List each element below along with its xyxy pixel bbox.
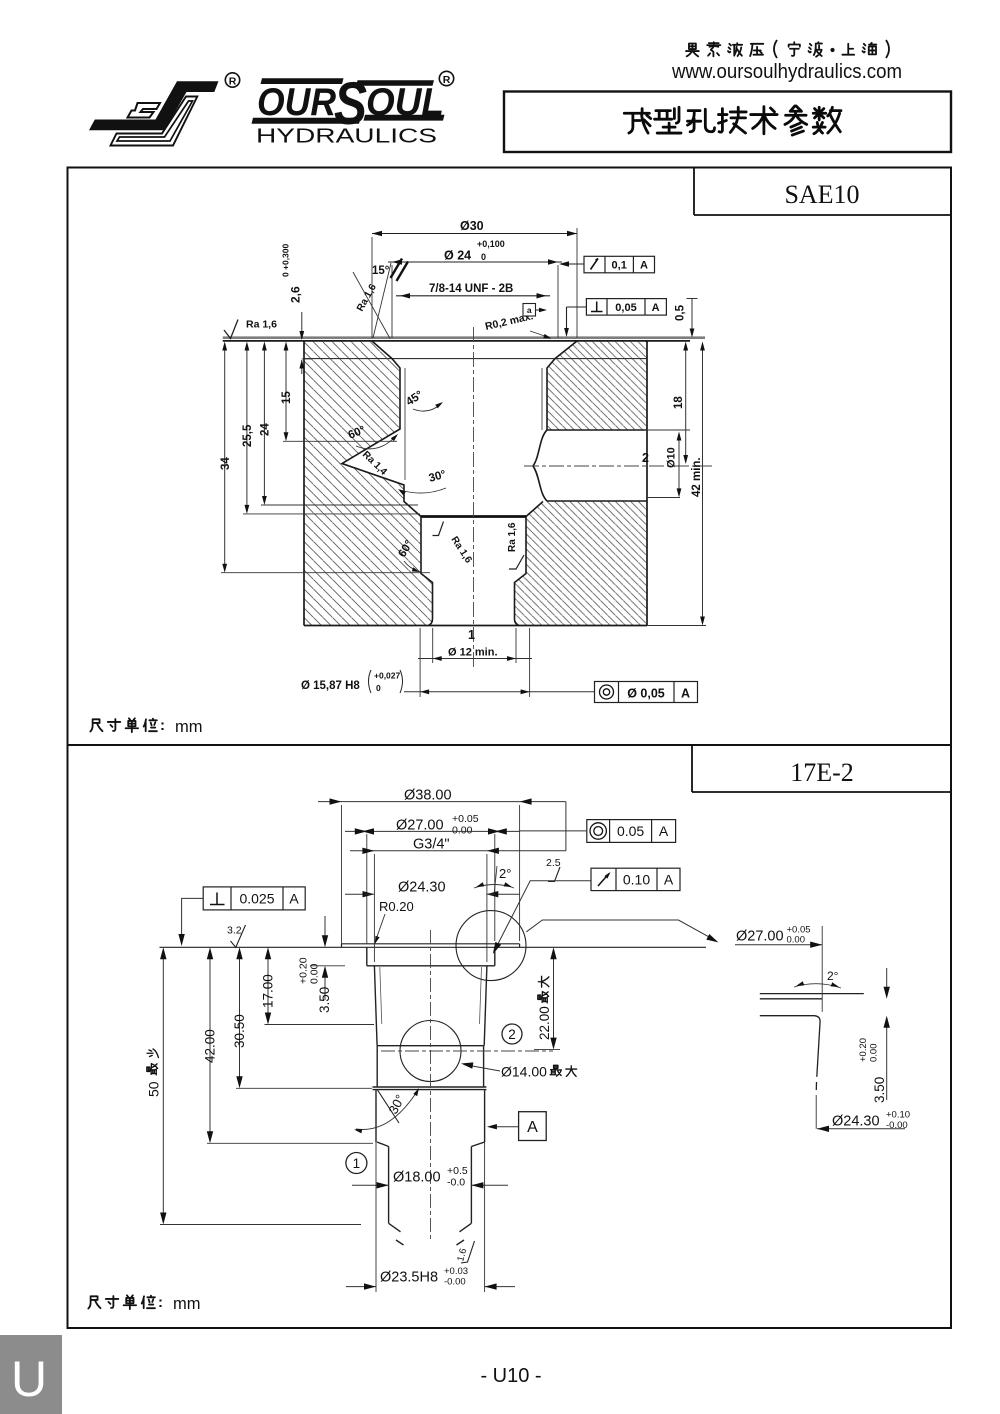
svg-text:+0.03: +0.03 (444, 1266, 468, 1277)
logo: OURSOUL S mark (89, 81, 219, 145)
left Ra 1,6 with check (224, 320, 238, 339)
svg-text:0.00: 0.00 (309, 963, 321, 984)
svg-text:R: R (443, 74, 451, 86)
perpendicularity frame 0,05 A (586, 299, 666, 316)
svg-text:15: 15 (281, 391, 293, 404)
svg-text:+0,100: +0,100 (477, 239, 505, 249)
svg-text:0: 0 (481, 252, 486, 262)
dim 0,5 right (691, 299, 693, 335)
angularity frame 0.10 A (591, 868, 680, 890)
cavity bore outline (342, 341, 577, 626)
seal bore walls (376, 1090, 485, 1142)
centerline vertical (430, 930, 432, 1242)
svg-text:SAE10: SAE10 (784, 180, 859, 209)
svg-text:Ø30: Ø30 (460, 219, 484, 233)
OURSOUL wordmark (252, 70, 445, 137)
svg-text:15°: 15° (372, 265, 390, 277)
dim Ø24 +0,100/0 (388, 261, 562, 263)
flatness feature frame 0,1 A (584, 256, 655, 273)
svg-text:0,5: 0,5 (675, 304, 687, 321)
svg-text:- U10 -: - U10 - (480, 1365, 541, 1387)
circled 2 (502, 1024, 522, 1044)
svg-text:U: U (11, 1351, 47, 1407)
svg-text:Ø23.5H8: Ø23.5H8 (380, 1270, 438, 1286)
svg-text:Ø 12 min.: Ø 12 min. (448, 647, 498, 659)
centerline vertical (473, 327, 475, 668)
svg-text:HYDRAULICS: HYDRAULICS (256, 125, 437, 148)
dim 25,5 (246, 344, 248, 511)
svg-text:34: 34 (220, 457, 232, 470)
unit note panel1 尺寸单位: mm (90, 718, 157, 732)
svg-text:+0.5: +0.5 (447, 1165, 468, 1177)
svg-text:42 min.: 42 min. (691, 457, 703, 497)
hatched block left section (304, 342, 433, 626)
svg-text:2°: 2° (499, 866, 511, 881)
ball max circle (400, 1021, 461, 1082)
svg-text:0,05: 0,05 (615, 302, 636, 314)
unit note panel2 尺寸单位: mm (88, 1295, 155, 1309)
svg-text:3.50: 3.50 (317, 987, 332, 1013)
dim 50 min (zui shao) (162, 950, 164, 1222)
svg-text:R0.20: R0.20 (379, 899, 414, 914)
svg-text:2: 2 (508, 1027, 516, 1042)
title box 成型孔技术参数 (504, 92, 951, 153)
leader from angularity frame to seat corner (494, 881, 591, 952)
dim 18 (685, 344, 687, 461)
svg-text:Ra 1,6: Ra 1,6 (507, 522, 518, 552)
dim 22.00 max vertical (553, 950, 555, 1047)
svg-text:Ø 0,05: Ø 0,05 (627, 687, 665, 701)
outer drawing frame (68, 168, 952, 1329)
svg-text:0.025: 0.025 (239, 891, 274, 907)
svg-text:Ø27.00: Ø27.00 (736, 929, 784, 945)
svg-text:Ø24.30: Ø24.30 (398, 880, 446, 896)
svg-text:1: 1 (468, 628, 475, 642)
svg-text:42.00: 42.00 (203, 1029, 218, 1063)
datum target box a (523, 304, 536, 317)
SAE10 label box (693, 168, 695, 216)
dim 3.50 +0.20/0.00 (324, 916, 326, 945)
svg-text:OUR: OUR (257, 81, 336, 124)
detail dim 3.50 +0.20/0.00 (886, 968, 888, 996)
leader from detail balloon to detail view (526, 920, 716, 941)
svg-text:0.00: 0.00 (787, 935, 806, 946)
svg-text:OUL: OUL (366, 81, 444, 124)
svg-text:1: 1 (353, 1156, 361, 1171)
detail corner profile (760, 1016, 820, 1077)
extension of seal bore walls (375, 1142, 377, 1292)
dim 42 min. (702, 344, 704, 623)
svg-text:0.05: 0.05 (617, 823, 644, 839)
registered mark right (439, 71, 453, 86)
svg-text:3.50: 3.50 (872, 1077, 887, 1103)
dim Ø30 (372, 233, 577, 235)
svg-text:0.00: 0.00 (452, 825, 473, 837)
17E-2 label box (691, 745, 693, 792)
dim 17.00 (267, 950, 269, 1022)
svg-text:2°: 2° (827, 969, 839, 983)
thread crest dashed lines (380, 967, 382, 1024)
detail balloon circle (456, 911, 526, 981)
centerline horizontal of side port (524, 465, 712, 467)
svg-text:2: 2 (642, 451, 649, 465)
registered mark left (225, 73, 239, 88)
svg-text:Ø 24: Ø 24 (444, 249, 471, 263)
svg-text:A: A (527, 1119, 538, 1136)
svg-text:Ø14.00: Ø14.00 (501, 1064, 547, 1080)
concentricity frame 0.05 A (panel2) (587, 820, 676, 843)
svg-text:+0.20: +0.20 (858, 1038, 869, 1062)
Ra 1,6 mid with check (433, 522, 444, 536)
cavity outline upper (367, 947, 495, 1245)
bore walls below seat (421, 517, 433, 626)
dim 15 (285, 344, 287, 439)
svg-text:A: A (289, 891, 299, 907)
thread minor diameter lines (404, 368, 406, 480)
concentricity frame Ø 0,05 A (595, 682, 698, 703)
svg-text:17.00: 17.00 (261, 974, 276, 1008)
hatched block right lower section (515, 501, 648, 626)
manifold surface line (160, 946, 707, 948)
svg-text:Ra 1,6: Ra 1,6 (246, 319, 277, 331)
svg-text:+0,300: +0,300 (281, 243, 291, 270)
svg-text:24: 24 (260, 423, 272, 436)
svg-text:-0.00: -0.00 (444, 1277, 466, 1288)
svg-text:3.2: 3.2 (227, 925, 242, 937)
svg-text:30.50: 30.50 (232, 1014, 247, 1048)
Ra 1,6 on 15 deg chamfer (353, 272, 390, 339)
detail surface lines (760, 993, 864, 995)
svg-text:0.10: 0.10 (623, 872, 650, 888)
svg-text:+0.10: +0.10 (886, 1110, 910, 1121)
svg-text:0,1: 0,1 (612, 260, 627, 272)
svg-text:Ø10: Ø10 (666, 447, 678, 468)
svg-text:mm: mm (175, 718, 203, 736)
pilot bore walls (389, 1147, 472, 1224)
svg-text:Ø 15,87 H8: Ø 15,87 H8 (301, 680, 360, 692)
wavy break at side port mouth (533, 430, 547, 501)
svg-text:R: R (229, 75, 237, 87)
30 deg lead-in line and arc (378, 1090, 400, 1123)
svg-text:0: 0 (281, 272, 291, 277)
hook to concentricity frame (565, 802, 567, 851)
svg-text::: : (158, 1294, 163, 1311)
svg-text:A: A (681, 687, 690, 701)
svg-text:-0.0: -0.0 (447, 1177, 465, 1189)
svg-text:25,5: 25,5 (242, 424, 254, 447)
dim 30.50 (239, 950, 241, 1086)
dim 34 (224, 344, 226, 570)
datum A box (519, 1112, 547, 1141)
svg-text:18: 18 (673, 396, 685, 409)
svg-text:7/8-14 UNF - 2B: 7/8-14 UNF - 2B (429, 283, 513, 295)
svg-text:2.5: 2.5 (546, 857, 561, 869)
valve seat edge (bold) (421, 515, 526, 518)
hatched block right upper section (547, 342, 647, 431)
perpendicularity frame 0.025 A (203, 887, 305, 910)
circled 1 (346, 1153, 367, 1174)
counterbore bottom line (2.6 deep) (304, 358, 647, 360)
detail: extension vertical (821, 926, 823, 1012)
svg-text:17E-2: 17E-2 (790, 758, 854, 787)
svg-text:A: A (664, 872, 674, 888)
top surface line (thick) (223, 336, 705, 339)
panel divider (68, 744, 952, 746)
svg-text:a: a (527, 305, 532, 315)
svg-text:22.00: 22.00 (537, 1006, 552, 1040)
svg-text:Ø18.00: Ø18.00 (393, 1170, 441, 1186)
svg-text:A: A (659, 823, 669, 839)
svg-text:Ø24.30: Ø24.30 (832, 1114, 880, 1130)
svg-text:0: 0 (376, 683, 381, 693)
svg-text:www.oursoulhydraulics.com: www.oursoulhydraulics.com (671, 60, 902, 83)
svg-text::: : (160, 717, 165, 734)
svg-text:-0.00: -0.00 (886, 1120, 908, 1131)
dim 42.00 (209, 950, 211, 1141)
dim 24 (263, 344, 265, 502)
svg-text:+0.05: +0.05 (452, 813, 479, 825)
page tab U (0, 1335, 62, 1414)
svg-text:G3/4": G3/4" (413, 837, 450, 853)
svg-text:0.00: 0.00 (869, 1044, 880, 1063)
svg-text:+0,027: +0,027 (374, 671, 401, 681)
chinese company line (686, 42, 763, 56)
side port bore lines (547, 429, 647, 431)
svg-text:2,6: 2,6 (289, 286, 303, 303)
svg-text:A: A (652, 302, 660, 314)
svg-text:A: A (640, 260, 648, 272)
svg-text:50: 50 (146, 1081, 162, 1097)
centerline horizontal (381, 1050, 553, 1052)
block outline (303, 341, 305, 626)
svg-text:mm: mm (173, 1295, 201, 1313)
